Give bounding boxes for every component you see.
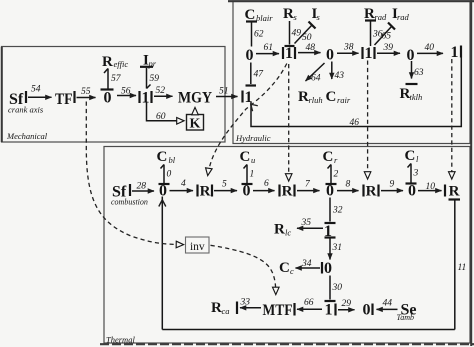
svg-text:3: 3 — [413, 169, 419, 179]
bond 6 — [253, 179, 275, 191]
inertia I_rad — [392, 6, 410, 22]
bond 38 — [337, 43, 359, 54]
svg-text:63: 63 — [414, 68, 424, 78]
bond 32 — [325, 198, 343, 224]
svg-text:R: R — [449, 184, 460, 200]
bond 63 — [406, 61, 424, 84]
svg-text:C: C — [279, 260, 290, 276]
resistor R thermal 3 — [364, 184, 379, 200]
svg-text:Thermal: Thermal — [106, 335, 135, 345]
bond 57 — [101, 69, 122, 90]
junction 1 hydraulic g — [243, 89, 253, 106]
junction 0 hydraulic e — [407, 47, 415, 64]
svg-text:59: 59 — [150, 74, 160, 84]
junction 0 thermal t4 — [408, 183, 416, 200]
bond 9 — [381, 180, 403, 191]
loop left wire — [159, 197, 166, 330]
svg-text:ca: ca — [222, 306, 230, 316]
hydraulic subsystem box — [228, 1, 474, 144]
resistor R_tklh — [400, 86, 423, 102]
svg-text:10: 10 — [426, 182, 436, 192]
svg-text:Hydraulic: Hydraulic — [235, 133, 271, 143]
svg-text:C: C — [240, 149, 251, 165]
svg-text:28: 28 — [137, 182, 147, 192]
bond 61 — [256, 43, 279, 54]
svg-text:0: 0 — [246, 47, 254, 64]
bond 35 — [297, 218, 323, 228]
svg-text:30: 30 — [332, 283, 343, 293]
svg-text:2: 2 — [334, 170, 339, 180]
bond 40 — [417, 43, 443, 53]
svg-text:1: 1 — [365, 45, 373, 62]
gyrator MGY — [178, 90, 212, 107]
svg-text:51: 51 — [219, 87, 229, 97]
bond 29 — [336, 299, 355, 316]
svg-text:34: 34 — [301, 259, 312, 269]
resistor R_lc — [274, 222, 291, 238]
svg-text:Tamb: Tamb — [397, 313, 415, 322]
capacitor C_rair — [326, 89, 351, 105]
svg-text:R: R — [211, 300, 222, 316]
svg-text:0: 0 — [326, 183, 334, 200]
svg-text:c: c — [290, 266, 294, 276]
svg-text:43: 43 — [335, 71, 345, 81]
resistor R thermal 2 — [280, 184, 295, 200]
svg-text:C: C — [326, 89, 337, 105]
svg-text:6: 6 — [264, 179, 269, 189]
svg-text:1: 1 — [142, 90, 150, 107]
bond 54 — [28, 85, 52, 98]
transformer MTF — [263, 302, 293, 319]
bond 11 loop — [455, 201, 466, 330]
thermal subsystem box — [100, 0, 474, 346]
junction 1 hydraulic d — [363, 45, 375, 62]
svg-text:66: 66 — [304, 298, 314, 308]
svg-text:60: 60 — [156, 112, 166, 122]
svg-text:40: 40 — [425, 43, 435, 53]
svg-text:44: 44 — [383, 299, 393, 309]
svg-text:MGY: MGY — [178, 90, 212, 107]
svg-text:29: 29 — [342, 299, 352, 309]
svg-text:bl: bl — [169, 155, 176, 165]
svg-text:61: 61 — [264, 43, 274, 53]
bond 34 — [296, 259, 323, 274]
svg-text:u: u — [251, 155, 255, 165]
junction 0 hydraulic c — [326, 46, 334, 63]
capacitor C_c — [279, 260, 294, 276]
junction 1 hydraulic f — [451, 44, 462, 61]
bond 44 — [373, 299, 398, 316]
svg-text:1: 1 — [451, 44, 459, 61]
svg-text:C: C — [405, 148, 416, 164]
bond 43 — [332, 62, 344, 82]
svg-text:R: R — [366, 184, 377, 200]
junction 1 mechanical — [140, 90, 152, 107]
bond 10 — [418, 182, 442, 192]
svg-text:0: 0 — [326, 46, 334, 63]
svg-text:32: 32 — [332, 206, 343, 216]
bond 48 — [298, 43, 321, 53]
svg-text:5: 5 — [222, 180, 227, 190]
svg-text:0: 0 — [243, 183, 251, 200]
svg-text:57: 57 — [111, 74, 122, 84]
junction 0 thermal v2 — [363, 302, 371, 319]
svg-text:62: 62 — [254, 30, 264, 40]
junction 0 thermal t3 — [326, 183, 334, 200]
bond 3 — [406, 164, 419, 184]
svg-text:31: 31 — [332, 243, 343, 253]
svg-text:54: 54 — [31, 85, 41, 95]
svg-text:0: 0 — [408, 183, 416, 200]
bond 28 — [132, 182, 154, 192]
svg-text:48: 48 — [306, 43, 316, 53]
svg-text:effic: effic — [114, 59, 129, 69]
resistor R_effic — [102, 54, 128, 70]
source Sf crank axis — [8, 91, 44, 115]
junction 0 hydraulic a — [246, 47, 254, 64]
svg-text:R: R — [298, 89, 309, 105]
bond 62 — [246, 22, 264, 47]
svg-text:R: R — [282, 184, 293, 200]
svg-text:11: 11 — [458, 263, 467, 273]
svg-text:64: 64 — [311, 74, 321, 84]
svg-text:C: C — [157, 149, 168, 165]
svg-text:R: R — [283, 6, 294, 22]
svg-text:46: 46 — [350, 118, 360, 128]
svg-text:rluh: rluh — [309, 95, 323, 105]
bond 49 — [285, 21, 302, 46]
svg-text:0: 0 — [167, 170, 172, 180]
svg-text:47: 47 — [254, 70, 265, 80]
bond 52 — [154, 86, 173, 96]
bond 47 — [246, 63, 265, 86]
svg-text:Mechanical: Mechanical — [6, 131, 48, 141]
bond 2 — [326, 165, 339, 185]
svg-text:K: K — [190, 117, 201, 132]
signal wire 1b to thermal R1 — [208, 64, 287, 176]
junction 0 thermal t2 — [243, 183, 251, 200]
signal wire 1d to thermal R3 — [367, 61, 369, 179]
svg-text:33: 33 — [240, 298, 251, 308]
svg-text:lc: lc — [285, 228, 291, 238]
capacitor C_u — [240, 149, 256, 165]
svg-text:tklh: tklh — [410, 92, 423, 102]
bond 59 — [140, 67, 159, 89]
bond 36 — [365, 21, 383, 47]
svg-text:1: 1 — [285, 45, 293, 62]
junction 0 mechanical — [104, 90, 112, 107]
svg-text:TF: TF — [55, 91, 73, 108]
svg-text:inv: inv — [190, 241, 205, 253]
resistor R_s — [283, 6, 298, 22]
svg-text:55: 55 — [81, 87, 91, 97]
svg-text:0: 0 — [407, 47, 415, 64]
bond 39 — [377, 43, 400, 53]
capacitor C_bl — [157, 149, 176, 165]
signal wire inv to MTF — [211, 245, 276, 294]
bond 64 — [306, 63, 325, 84]
svg-text:65: 65 — [382, 32, 392, 42]
signal wire 1b to thermal R2 — [288, 64, 290, 181]
inertia I_pr — [143, 53, 157, 69]
svg-text:rair: rair — [337, 95, 351, 105]
svg-text:crank axis: crank axis — [8, 105, 44, 115]
bond 1 — [242, 165, 255, 185]
svg-text:C: C — [323, 149, 334, 165]
svg-text:R: R — [200, 184, 211, 200]
svg-text:52: 52 — [156, 86, 166, 96]
inverter block inv — [186, 237, 210, 253]
bond 0 — [159, 165, 172, 185]
svg-text:8: 8 — [346, 180, 351, 190]
bond 65 — [375, 23, 396, 46]
transformer TF — [55, 91, 75, 108]
bond 4 — [170, 179, 194, 191]
svg-text:9: 9 — [390, 180, 395, 190]
svg-text:0: 0 — [104, 90, 112, 107]
bond 30 — [325, 276, 343, 302]
mechanical subsystem box — [2, 47, 226, 143]
svg-text:MTF: MTF — [263, 302, 293, 319]
resistor R_rad — [364, 6, 387, 22]
inertia I_s — [312, 6, 321, 22]
svg-text:R: R — [274, 222, 285, 238]
resistor R_ca — [211, 300, 230, 316]
source Sf combustion — [111, 184, 148, 207]
resistor R thermal 4 — [445, 184, 460, 200]
svg-text:blair: blair — [256, 13, 273, 23]
gain block K — [187, 108, 204, 132]
bond 7 — [297, 180, 320, 191]
svg-text:4: 4 — [181, 179, 186, 189]
bond 51 — [216, 87, 238, 97]
bond 46 — [251, 58, 461, 129]
resistor R thermal 1 — [198, 184, 213, 200]
bond 33 — [237, 298, 261, 315]
junction 1 hydraulic b — [283, 45, 295, 62]
svg-text:56: 56 — [121, 87, 131, 97]
signal wire 1f to thermal R4 — [451, 59, 453, 179]
bond 60 signal to K — [147, 102, 184, 122]
svg-text:0: 0 — [363, 302, 371, 319]
bond 55 — [77, 87, 96, 98]
bond 8 — [337, 180, 359, 191]
capacitor C_blair — [245, 7, 274, 23]
junction 0 thermal t1 — [159, 183, 167, 200]
svg-text:rad: rad — [397, 12, 410, 22]
bond 66 — [295, 298, 323, 316]
loop bottom wire — [162, 329, 455, 331]
svg-text:0: 0 — [324, 260, 332, 277]
junction 1 thermal v2 — [325, 302, 333, 319]
capacitor C_r — [323, 149, 339, 165]
bond 31 — [325, 238, 343, 260]
svg-text:combustion: combustion — [111, 198, 148, 207]
svg-text:1: 1 — [250, 170, 255, 180]
junction 1 thermal v1 — [324, 223, 332, 240]
svg-text:R: R — [102, 54, 113, 70]
junction 0 thermal v — [324, 260, 332, 277]
bond 50 — [295, 22, 316, 44]
svg-text:38: 38 — [343, 43, 354, 53]
svg-text:35: 35 — [301, 218, 312, 228]
source Se Tamb — [397, 302, 417, 323]
svg-text:50: 50 — [302, 33, 312, 43]
svg-text:rad: rad — [375, 12, 388, 22]
capacitor C_l — [405, 148, 420, 164]
bond 56 — [117, 87, 136, 97]
signal wire bond55 to inv — [86, 102, 183, 245]
bond 5 — [214, 180, 237, 191]
svg-text:39: 39 — [383, 43, 394, 53]
svg-text:1: 1 — [325, 302, 333, 319]
resistor R_rluh — [298, 89, 323, 105]
